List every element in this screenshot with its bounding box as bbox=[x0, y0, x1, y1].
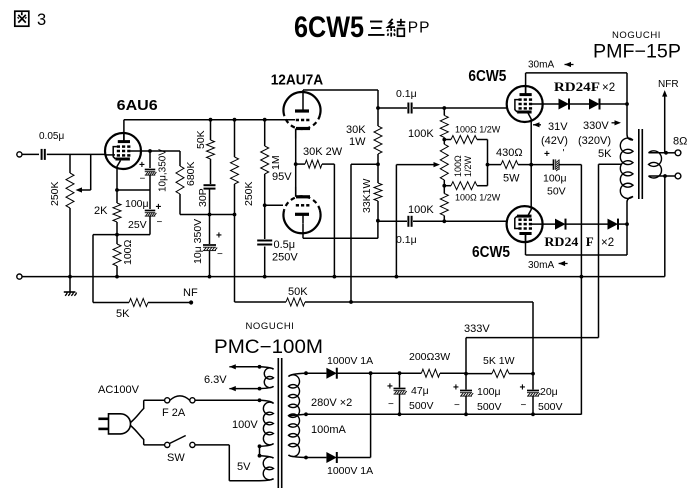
wire to 6CW5 lower grid bbox=[444, 220, 506, 222]
svg-text:5W: 5W bbox=[503, 173, 520, 185]
svg-text:5K 1W: 5K 1W bbox=[483, 355, 515, 367]
svg-text:200Ω3W: 200Ω3W bbox=[409, 351, 450, 363]
rectifier diode 1000V1A (lower) bbox=[306, 452, 373, 477]
6AU6 g2 lead bbox=[130, 149, 152, 153]
negative rail (CT) bbox=[306, 412, 581, 416]
PMC core bbox=[278, 358, 281, 488]
svg-text:(42V): (42V) bbox=[541, 135, 568, 147]
label 31V bbox=[533, 121, 568, 147]
svg-text:280V ×2: 280V ×2 bbox=[311, 397, 352, 409]
svg-text:500V: 500V bbox=[477, 401, 502, 413]
tube 6CW5 upper bbox=[468, 68, 542, 122]
title 図3 (kanji drawn as paths) bbox=[15, 11, 46, 29]
capacitor 100μ 50V bbox=[531, 148, 581, 198]
resistor 5K1W bbox=[466, 355, 533, 378]
svg-text:5K: 5K bbox=[116, 308, 130, 320]
tube 6AU6 bbox=[105, 97, 158, 169]
6CW5 lower cathode lead bbox=[528, 165, 531, 216]
svg-text:(320V): (320V) bbox=[578, 135, 611, 147]
svg-text:30mA: 30mA bbox=[528, 260, 554, 271]
svg-text:−: − bbox=[140, 174, 146, 185]
svg-text:30mA: 30mA bbox=[528, 60, 554, 71]
svg-text:250K: 250K bbox=[243, 181, 255, 206]
svg-text:SW: SW bbox=[167, 452, 185, 464]
capacitor 0.1μ (upper coupling) bbox=[378, 88, 446, 114]
12AU7A upper plate wire bbox=[303, 90, 378, 102]
resistor 100Ω bbox=[113, 235, 134, 279]
svg-text:6CW5: 6CW5 bbox=[468, 68, 506, 85]
svg-text:100mA: 100mA bbox=[311, 424, 347, 436]
svg-text:': ' bbox=[563, 148, 565, 159]
svg-text:500V: 500V bbox=[538, 401, 563, 413]
svg-text:50V: 50V bbox=[547, 186, 566, 198]
svg-text:250K: 250K bbox=[49, 181, 61, 206]
switch SW bbox=[144, 436, 195, 465]
PMC secondary 280Vx2 bbox=[289, 371, 353, 459]
svg-text:RD24: RD24 bbox=[544, 234, 579, 249]
svg-text:1000V 1A: 1000V 1A bbox=[327, 355, 373, 367]
resistor 200Ω3W bbox=[400, 351, 467, 377]
label 30mA upper bbox=[528, 60, 574, 71]
tube 12AU7A lower triode bbox=[284, 187, 321, 233]
resistor 250K (plate load) bbox=[231, 118, 256, 215]
zener diodes RD24F x2 (upper) bbox=[554, 79, 629, 110]
svg-text:100Ω 1/2W: 100Ω 1/2W bbox=[455, 193, 501, 203]
svg-text:100Ω: 100Ω bbox=[122, 239, 134, 265]
balance pot 100Ω 1/2W bbox=[440, 140, 473, 188]
svg-text:0.1μ: 0.1μ bbox=[396, 234, 417, 246]
svg-text:NOGUCHI: NOGUCHI bbox=[612, 30, 661, 41]
svg-text:10μ,350V: 10μ,350V bbox=[158, 149, 169, 192]
svg-text:33K1W: 33K1W bbox=[361, 178, 373, 213]
volume pot 250K bbox=[49, 154, 74, 276]
svg-text:50K: 50K bbox=[195, 130, 207, 149]
plug wire lower bbox=[131, 426, 144, 445]
AC plug bbox=[98, 414, 130, 434]
svg-text:100μ: 100μ bbox=[125, 198, 149, 210]
plug wire upper bbox=[131, 400, 144, 422]
svg-text:50K: 50K bbox=[288, 286, 308, 298]
12AU7A lower plate wire bbox=[303, 221, 378, 239]
svg-text:330V: 330V bbox=[583, 120, 609, 132]
chassis ground bbox=[64, 275, 77, 296]
svg-text:AC100V: AC100V bbox=[98, 384, 140, 396]
heater lead 6.3V top bbox=[229, 364, 261, 369]
rectifier diode 1000V1A (upper) bbox=[306, 355, 400, 379]
wire SW to 5V winding bbox=[195, 445, 260, 481]
svg-text:−: − bbox=[521, 400, 527, 411]
12AU7A lower grid wire bbox=[265, 204, 283, 206]
6CW5 upper cathode lead bbox=[528, 113, 531, 165]
svg-text:NOGUCHI: NOGUCHI bbox=[245, 321, 294, 332]
title 6CW5三結PP bbox=[294, 11, 430, 44]
svg-text:PP: PP bbox=[408, 20, 431, 37]
B+ feed riser (to subrail) bbox=[235, 215, 287, 303]
svg-text:1000V 1A: 1000V 1A bbox=[327, 465, 373, 477]
input terminal (hot) bbox=[17, 152, 22, 157]
6AU6 grid-1 entry bbox=[106, 154, 116, 156]
svg-text:6CW5: 6CW5 bbox=[472, 244, 510, 261]
diode output join bbox=[369, 371, 373, 457]
svg-text:−: − bbox=[388, 399, 394, 410]
svg-text:250V: 250V bbox=[272, 252, 298, 264]
capacitor 10μ 350V (decoupling) bbox=[192, 215, 223, 279]
6AU6 plate wire bbox=[124, 119, 295, 121]
PMF-15P primary winding 5K bbox=[598, 134, 633, 224]
svg-text:PMF−15P: PMF−15P bbox=[593, 42, 681, 63]
capacitor 0.1μ (lower coupling) bbox=[378, 216, 446, 246]
svg-text:+: + bbox=[520, 383, 526, 394]
wire fuse to primary bbox=[195, 398, 261, 402]
svg-text:2K: 2K bbox=[94, 205, 108, 217]
svg-text:5V: 5V bbox=[237, 461, 251, 473]
PMF-15P secondary winding bbox=[649, 151, 668, 178]
pot wiper to ground bbox=[395, 162, 441, 279]
6CW5 upper plate wire bbox=[526, 73, 627, 134]
svg-text:5K: 5K bbox=[598, 148, 612, 160]
svg-text:+: + bbox=[453, 383, 459, 394]
6AU6 cathode lead bbox=[115, 161, 120, 192]
capacitor 47μ 500V bbox=[387, 371, 434, 416]
capacitor 0.05μ bbox=[39, 131, 64, 160]
svg-text:100μ: 100μ bbox=[543, 173, 567, 185]
svg-text:−: − bbox=[454, 400, 460, 411]
winding link bbox=[258, 446, 262, 457]
svg-text:6.3V: 6.3V bbox=[204, 374, 227, 386]
PMC 100V winding bbox=[232, 400, 274, 448]
B+ to splitter loads bbox=[351, 164, 378, 302]
resistor 50K (step network) bbox=[195, 118, 215, 184]
svg-text:PMC−100M: PMC−100M bbox=[214, 337, 323, 358]
resistor 100Ω 1/2W (upper) bbox=[444, 125, 500, 144]
svg-text:−: − bbox=[217, 249, 223, 260]
svg-text:30K 2W: 30K 2W bbox=[303, 146, 343, 158]
resistor 1M (grid leak) bbox=[261, 118, 282, 207]
resistor 30K 1W (upper plate load) bbox=[346, 90, 382, 166]
resistor 100K (lower grid) bbox=[408, 186, 448, 222]
svg-text:1M: 1M bbox=[270, 155, 282, 170]
tube 6CW5 lower bbox=[472, 206, 543, 261]
svg-text:100V: 100V bbox=[232, 419, 258, 431]
svg-text:500V: 500V bbox=[409, 400, 434, 412]
svg-text:430Ω: 430Ω bbox=[496, 147, 523, 159]
6CW5 upper g2 lead bbox=[532, 103, 560, 105]
pot wiper bbox=[76, 155, 91, 193]
cathode link wire 95V bbox=[272, 129, 298, 196]
svg-text:+: + bbox=[544, 149, 550, 160]
resistor 100Ω 1/2W (lower) bbox=[444, 182, 500, 203]
input terminal (ground) bbox=[17, 274, 22, 279]
svg-text:100Ω 1/2W: 100Ω 1/2W bbox=[455, 125, 501, 135]
capacitor 100μ 500V bbox=[453, 372, 502, 415]
svg-text:31V: 31V bbox=[548, 121, 568, 133]
svg-text:+: + bbox=[387, 382, 393, 393]
svg-text:10μ 350V: 10μ 350V bbox=[192, 219, 204, 264]
resistor 430Ω 5W bbox=[488, 147, 534, 185]
svg-text:+: + bbox=[139, 160, 145, 171]
label 330V bbox=[578, 120, 621, 147]
capacitor 20μ 500V bbox=[520, 372, 563, 415]
bracket to 430Ω bbox=[486, 140, 490, 186]
svg-text:95V: 95V bbox=[272, 171, 292, 183]
svg-text:×2: ×2 bbox=[601, 237, 614, 249]
capacitor 10μ350V (g2 bypass) bbox=[139, 149, 169, 192]
svg-text:30P: 30P bbox=[197, 188, 209, 207]
label PMC-100M bbox=[214, 337, 323, 358]
svg-text:8Ω: 8Ω bbox=[673, 136, 687, 148]
svg-text:F: F bbox=[586, 234, 594, 249]
wire cap to 6AU6 grid bbox=[47, 153, 106, 155]
label AC100V bbox=[98, 384, 140, 396]
label 6.3V bbox=[204, 374, 227, 386]
svg-text:100K: 100K bbox=[408, 204, 434, 216]
PMF-15P core bbox=[639, 129, 643, 199]
heater lead 6.3V bottom bbox=[229, 386, 261, 391]
label NOGUCHI (output transformer) bbox=[612, 30, 661, 41]
resistor 30K2W (common cathode) bbox=[296, 146, 343, 279]
zener diodes RD24F x2 (lower) bbox=[544, 219, 628, 249]
svg-text:0.1μ: 0.1μ bbox=[396, 88, 417, 100]
ground bus wire bbox=[22, 276, 665, 278]
svg-text:NFR: NFR bbox=[658, 79, 679, 90]
resistor 50K (B+ dropper) bbox=[286, 286, 533, 306]
svg-text:25V: 25V bbox=[128, 219, 147, 231]
svg-text:20μ: 20μ bbox=[540, 386, 558, 398]
wire cathode node bbox=[117, 189, 150, 191]
svg-text:6CW5: 6CW5 bbox=[294, 11, 364, 44]
6AU6 plate lead bbox=[123, 120, 125, 142]
svg-text:RD24F: RD24F bbox=[554, 79, 600, 94]
resistor 680K (screen feed) bbox=[150, 151, 197, 215]
6CW5 lower plate wire bbox=[526, 224, 628, 255]
svg-text:0.05μ: 0.05μ bbox=[39, 131, 64, 142]
PMC 6.3V winding bbox=[260, 367, 274, 389]
cathode network ground return bbox=[580, 165, 584, 415]
label NOGUCHI (power transformer) bbox=[245, 321, 294, 332]
resistor 5K (NF) bbox=[116, 287, 198, 320]
PMC 5V winding bbox=[237, 456, 274, 481]
tube 12AU7A upper triode bbox=[271, 72, 324, 139]
capacitor 0.5μ 250V bbox=[257, 205, 298, 278]
svg-text:6AU6: 6AU6 bbox=[117, 97, 158, 114]
svg-text:3: 3 bbox=[37, 11, 46, 29]
svg-text:100μ: 100μ bbox=[477, 386, 501, 398]
svg-text:−: − bbox=[157, 217, 163, 228]
NFR feedback takeoff bbox=[658, 79, 679, 153]
svg-text:NF: NF bbox=[183, 287, 198, 299]
svg-text:1W: 1W bbox=[349, 136, 366, 148]
B+ riser to amp bbox=[532, 302, 534, 374]
resistor 100K (upper grid) bbox=[408, 108, 448, 141]
svg-text:0.5μ: 0.5μ bbox=[274, 239, 296, 251]
svg-text:1/2W: 1/2W bbox=[463, 155, 473, 177]
svg-text:12AU7A: 12AU7A bbox=[271, 72, 324, 89]
svg-text:+: + bbox=[156, 202, 162, 213]
svg-text:47μ: 47μ bbox=[411, 385, 429, 397]
label PMF-15P bbox=[593, 42, 681, 63]
resistor 33K1W (lower plate load) bbox=[361, 164, 382, 222]
PMC center tap bbox=[289, 412, 308, 416]
secondary return to ground bbox=[664, 176, 666, 277]
label 30mA lower bbox=[528, 260, 568, 271]
svg-text:680K: 680K bbox=[185, 161, 197, 186]
B+ subrail wire bbox=[180, 213, 236, 217]
svg-text:333V: 333V bbox=[464, 323, 490, 335]
B+ 333V wire to center tap bbox=[464, 323, 599, 374]
svg-text:100K: 100K bbox=[408, 128, 434, 140]
svg-text:F 2A: F 2A bbox=[162, 407, 186, 419]
capacitor 100μ 25V bbox=[117, 190, 163, 235]
svg-text:×2: ×2 bbox=[602, 82, 615, 94]
wire to 6CW5 upper grid bbox=[444, 107, 506, 109]
output terminal 8Ω top bbox=[666, 136, 687, 156]
NF injection wire bbox=[93, 235, 129, 303]
PMF-15P center tap bbox=[599, 164, 623, 337]
svg-text:100Ω: 100Ω bbox=[453, 155, 463, 177]
output terminal 8Ω bottom bbox=[665, 173, 681, 179]
svg-text:+: + bbox=[216, 231, 222, 242]
resistor 2K bbox=[94, 190, 121, 237]
svg-text:30K: 30K bbox=[346, 124, 366, 136]
capacitor 30P bbox=[197, 185, 216, 214]
wire input to coupling cap bbox=[22, 153, 39, 155]
6CW5 lower g2 lead bbox=[532, 223, 555, 225]
fuse F2A bbox=[144, 396, 195, 419]
